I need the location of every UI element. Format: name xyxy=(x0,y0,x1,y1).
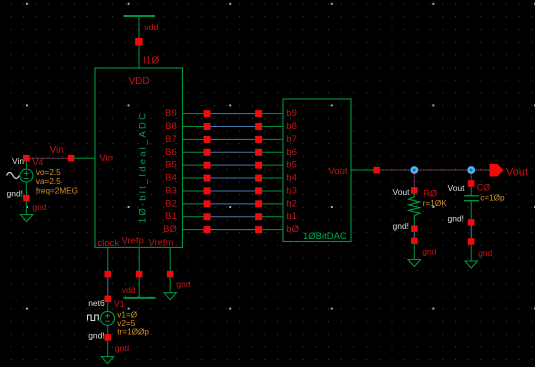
ground symbol (R0) xyxy=(408,260,420,267)
svg-text:B9: B9 xyxy=(165,108,177,119)
svg-text:b1: b1 xyxy=(286,211,297,222)
wire Vrefm pin down xyxy=(169,247,171,271)
wire B3 from ADC to DAC xyxy=(183,190,204,192)
wire clock pin down xyxy=(107,247,109,271)
pin square b1 (DAC side) xyxy=(255,213,262,220)
pin square b6 (DAC side) xyxy=(255,149,262,156)
pin square clock xyxy=(105,271,112,278)
svg-text:Vout: Vout xyxy=(393,187,411,197)
resistor R0 zigzag xyxy=(409,194,420,220)
svg-text:B2: B2 xyxy=(165,198,177,209)
pin square B2 (ADC side) xyxy=(204,200,211,207)
svg-text:b7: b7 xyxy=(286,134,297,145)
pin square Vrefp xyxy=(136,271,143,278)
svg-text:vdd: vdd xyxy=(145,22,159,32)
svg-text:1ØBitDAC: 1ØBitDAC xyxy=(303,231,347,242)
wire Vrefp pin down xyxy=(138,247,140,271)
pin square b5 (DAC side) xyxy=(255,162,262,169)
wire B7 from ADC to DAC xyxy=(183,138,204,140)
pin square V1 top xyxy=(105,296,112,303)
wire gnd net (blue, R0) xyxy=(413,232,415,238)
pin square Vrefm xyxy=(167,271,174,278)
wire B4 from ADC to DAC xyxy=(183,177,204,179)
wire B5 from ADC to DAC xyxy=(183,164,204,166)
wire C0 bottom lead xyxy=(470,201,472,220)
svg-text:RØ: RØ xyxy=(424,189,438,199)
pin square gnd (V4) xyxy=(23,195,30,202)
svg-text:Vrefm: Vrefm xyxy=(149,238,174,249)
svg-text:B6: B6 xyxy=(165,147,177,158)
svg-text:gnd: gnd xyxy=(176,279,190,289)
wire to ground (R0) xyxy=(413,244,415,260)
svg-text:va=2.5: va=2.5 xyxy=(36,177,61,186)
pin square gnd (C0) xyxy=(468,238,475,245)
pin square on vdd wire xyxy=(135,38,143,46)
svg-text:tr=1ØØp: tr=1ØØp xyxy=(117,328,149,337)
svg-text:B7: B7 xyxy=(165,134,177,145)
pin square Vin wire xyxy=(68,155,75,162)
svg-text:gnd: gnd xyxy=(422,247,436,257)
pin square b9 (DAC side) xyxy=(255,110,262,117)
pin square B5 (ADC side) xyxy=(204,162,211,169)
pin square b3 (DAC side) xyxy=(255,187,262,194)
wire to ground (V4) xyxy=(25,201,27,214)
wire B1 from ADC to DAC xyxy=(183,216,204,218)
wire Vout dashed net segment xyxy=(380,169,490,171)
wire B8 from ADC to DAC xyxy=(183,125,204,127)
svg-text:c=1Øp: c=1Øp xyxy=(480,194,505,203)
svg-text:gnd: gnd xyxy=(115,343,129,353)
svg-text:vo=2.5: vo=2.5 xyxy=(36,168,61,177)
svg-text:gnd: gnd xyxy=(32,202,46,212)
node junction dot 1 (Vout/R0) xyxy=(410,166,418,174)
pin square b0 (DAC side) xyxy=(255,226,262,233)
svg-text:VDD: VDD xyxy=(128,76,149,87)
vpulse V1 circle xyxy=(107,302,109,311)
DAC 10BitDAC box xyxy=(283,99,351,242)
svg-text:b2: b2 xyxy=(286,198,297,209)
wire Vrefm to ground xyxy=(169,277,171,292)
wire B0 from ADC to DAC xyxy=(183,229,204,231)
output pin Vout (arrow) xyxy=(490,164,504,177)
wire V4 minus to gnd square xyxy=(25,182,27,195)
svg-text:net6: net6 xyxy=(88,298,105,308)
svg-text:Vout: Vout xyxy=(448,183,466,193)
vsource V4 sine symbol marker xyxy=(7,173,20,179)
svg-text:Vout: Vout xyxy=(328,166,347,177)
svg-text:bØ: bØ xyxy=(286,224,299,235)
ground symbol (V1) xyxy=(101,357,113,364)
wire Vin: source to net square xyxy=(23,155,30,162)
svg-text:Vin: Vin xyxy=(12,156,24,166)
svg-text:gnd!: gnd! xyxy=(393,221,410,231)
svg-text:b8: b8 xyxy=(286,121,297,132)
pin square C0 top xyxy=(468,180,475,187)
wire B2 from ADC to DAC xyxy=(183,203,204,205)
wire node1 to R0 (dashed) xyxy=(413,174,415,188)
svg-text:CØ: CØ xyxy=(477,183,491,193)
wire to ground (V1) xyxy=(107,341,109,357)
wire Vin to ADC xyxy=(74,157,95,159)
svg-text:b4: b4 xyxy=(286,173,297,184)
svg-text:B5: B5 xyxy=(165,160,177,171)
pin square B8 (ADC side) xyxy=(204,123,211,130)
svg-text:b3: b3 xyxy=(286,185,297,196)
wire to ground (C0) xyxy=(470,245,472,261)
pin square B7 (ADC side) xyxy=(204,136,211,143)
svg-text:vdd: vdd xyxy=(122,285,136,295)
pin square B6 (ADC side) xyxy=(204,149,211,156)
svg-text:BØ: BØ xyxy=(163,224,177,235)
wire B6 from ADC to DAC xyxy=(183,151,204,153)
wire V1 minus xyxy=(107,325,109,334)
svg-text:Vout: Vout xyxy=(506,167,528,179)
svg-text:1Ø-bit_Ideal_ADC: 1Ø-bit_Ideal_ADC xyxy=(138,111,149,223)
pin square B3 (ADC side) xyxy=(204,187,211,194)
vpulse V1 pulse symbol marker xyxy=(88,315,99,321)
svg-text:I1Ø: I1Ø xyxy=(143,56,159,67)
pin square b4 (DAC side) xyxy=(255,175,262,182)
pin square b7 (DAC side) xyxy=(255,136,262,143)
wire gnd net (blue, C0) xyxy=(470,226,472,239)
svg-text:freq=2MEG: freq=2MEG xyxy=(36,187,78,196)
pin square B0 (ADC side) xyxy=(204,226,211,233)
pin square B9 (ADC side) xyxy=(204,110,211,117)
pin square b2 (DAC side) xyxy=(255,200,262,207)
pin square B4 (ADC side) xyxy=(204,175,211,182)
svg-text:B1: B1 xyxy=(165,211,177,222)
ground symbol (Vrefm) xyxy=(164,293,176,300)
svg-text:Vin: Vin xyxy=(50,145,64,156)
pin square gnd (V1) xyxy=(105,334,112,341)
svg-text:Vrefp: Vrefp xyxy=(122,236,144,247)
ADC 10-bit_Ideal_ADC box xyxy=(95,68,183,247)
svg-text:r=1ØK: r=1ØK xyxy=(423,199,447,208)
svg-text:gnd!: gnd! xyxy=(7,188,24,198)
capacitor C0 plates xyxy=(464,195,479,197)
pin square B1 (ADC side) xyxy=(204,213,211,220)
wire Vrefp to vdd bar xyxy=(138,277,140,298)
vsource V4 circle xyxy=(25,161,27,169)
svg-text:clock: clock xyxy=(98,238,120,249)
pin square C0 bottom xyxy=(468,219,475,226)
svg-text:gnd!: gnd! xyxy=(448,214,465,224)
svg-text:V4: V4 xyxy=(32,158,43,168)
pin square R0 bottom xyxy=(411,225,418,232)
ground symbol (C0) xyxy=(465,261,477,268)
pin square Vout wire xyxy=(373,167,380,174)
ground symbol (V4) xyxy=(20,215,32,222)
wire B9 from ADC to DAC xyxy=(183,113,204,115)
svg-text:B3: B3 xyxy=(165,185,177,196)
svg-text:b6: b6 xyxy=(286,147,297,158)
pin square b8 (DAC side) xyxy=(255,123,262,130)
svg-text:gnd!: gnd! xyxy=(88,330,105,340)
vdd supply symbol (Vrefp, flipped) xyxy=(124,297,156,299)
svg-text:gnd: gnd xyxy=(478,248,492,258)
svg-text:V1: V1 xyxy=(114,299,125,309)
svg-text:b9: b9 xyxy=(286,108,297,119)
wire Vin dashed net segment xyxy=(30,157,68,159)
svg-text:Vin: Vin xyxy=(100,153,114,164)
wire node2 to C0 (dashed) xyxy=(470,174,472,181)
wire net6 (blue segment) xyxy=(107,277,109,295)
wire Vout from DAC xyxy=(351,169,374,171)
pin square gnd (R0) xyxy=(411,238,418,245)
svg-text:b5: b5 xyxy=(286,160,297,171)
node junction dot 2 (Vout/C0) xyxy=(467,166,475,174)
svg-text:B8: B8 xyxy=(165,121,177,132)
pin square R0 top xyxy=(411,187,418,194)
vdd supply symbol (top) xyxy=(124,15,156,17)
wire R0 bottom xyxy=(413,220,415,226)
svg-text:B4: B4 xyxy=(165,173,177,184)
wire C0 top lead xyxy=(470,187,472,196)
